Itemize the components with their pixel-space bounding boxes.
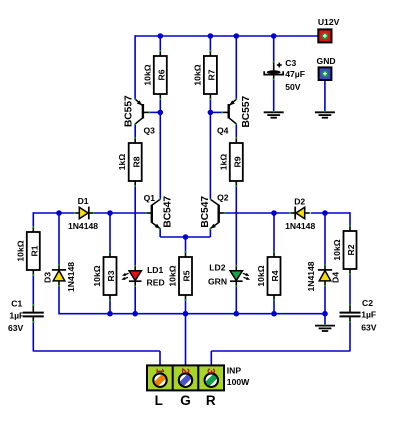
- label LD1: [147, 265, 163, 275]
- svg-text:L: L: [155, 393, 163, 408]
- wire C3 bottom to ground: [273, 78, 275, 112]
- svg-text:1N4148: 1N4148: [68, 221, 98, 231]
- label U12V: [318, 17, 340, 27]
- svg-text:LD1: LD1: [147, 265, 163, 275]
- resistor R4 10k: [256, 252, 281, 300]
- pin number 1: [153, 368, 165, 374]
- wire Q4 emitter to rail: [235, 36, 237, 99]
- svg-text:D3: D3: [43, 272, 53, 283]
- wire R3 bottom lead: [109, 300, 111, 314]
- junction dot Q3 base node: [158, 110, 164, 116]
- svg-text:RED: RED: [147, 278, 165, 288]
- svg-text:D1: D1: [78, 196, 89, 206]
- diode D3 1N4148: [52, 265, 66, 286]
- svg-text:1: 1: [153, 368, 165, 374]
- label BC547 Q2: [200, 196, 211, 228]
- label RED: [147, 278, 165, 288]
- LED LD1 red: [121, 266, 141, 287]
- wire mid ground bus: [59, 313, 325, 315]
- svg-text:50V: 50V: [285, 82, 301, 92]
- svg-text:1N4148: 1N4148: [306, 261, 316, 291]
- svg-text:R8: R8: [131, 156, 141, 167]
- label GND: [317, 56, 336, 66]
- svg-text:R3: R3: [106, 270, 116, 281]
- resistor R9 1k: [218, 138, 243, 186]
- label Q2: [217, 193, 229, 203]
- svg-text:1µF: 1µF: [9, 310, 24, 320]
- label BC547 Q1: [162, 196, 173, 228]
- wire Q4 collector to R9: [235, 124, 237, 139]
- svg-text:R2: R2: [346, 244, 356, 255]
- wire R2 bottom to C2: [349, 274, 351, 306]
- transistor Q4 BC557: [222, 99, 236, 124]
- wire node Q3/R6/Q1-collector vertical: [159, 112, 161, 199]
- svg-text:1kΩ: 1kΩ: [117, 154, 127, 171]
- wire emitter bracket: [160, 236, 210, 238]
- label C1: [11, 298, 22, 308]
- wire base line right (Q2 to R2): [225, 212, 351, 226]
- label C2: [362, 298, 373, 308]
- wire LD1 bottom lead: [134, 286, 136, 314]
- label C3 value: [285, 69, 305, 79]
- wire Q1 emitter down: [159, 229, 161, 237]
- svg-text:10kΩ: 10kΩ: [15, 240, 25, 261]
- wire Q3 collector to R8: [134, 124, 136, 139]
- wire R6 bottom to Q3 base junction: [159, 99, 161, 113]
- label 1N4148 D1: [68, 221, 98, 231]
- svg-text:R9: R9: [232, 156, 242, 167]
- svg-text:C2: C2: [362, 298, 373, 308]
- wire R1 top lead: [32, 212, 34, 227]
- svg-text:C3: C3: [285, 58, 296, 68]
- junction dots base line right: [271, 210, 328, 216]
- diode D2 1N4148: [290, 207, 309, 220]
- label Q1: [144, 193, 156, 203]
- svg-text:3: 3: [205, 368, 217, 374]
- svg-text:LD2: LD2: [209, 262, 225, 272]
- svg-text:Q1: Q1: [144, 193, 156, 203]
- wire R7 bottom to Q4 base junction: [209, 99, 211, 113]
- capacitor C3 47uF polarized: [264, 62, 283, 80]
- resistor R3 10k: [92, 252, 117, 300]
- wire C1 to terminal L: [33, 322, 160, 371]
- label BC557 Q3: [123, 95, 134, 127]
- svg-text:1N4148: 1N4148: [285, 221, 315, 231]
- svg-text:BC557: BC557: [241, 96, 252, 128]
- label C2 value: [361, 309, 376, 319]
- terminal screw 1: [152, 372, 169, 389]
- svg-text:R: R: [206, 393, 216, 408]
- svg-text:10kΩ: 10kΩ: [192, 64, 202, 85]
- svg-text:R4: R4: [270, 270, 280, 281]
- label BC557 Q4: [241, 96, 252, 128]
- svg-text:47µF: 47µF: [285, 69, 305, 79]
- svg-text:GRN: GRN: [208, 277, 227, 287]
- wire R4 top lead: [273, 213, 275, 253]
- wire LD2 bottom lead: [235, 286, 237, 314]
- svg-text:C1: C1: [11, 298, 22, 308]
- resistor R5 10k: [168, 252, 193, 300]
- svg-text:10kΩ: 10kΩ: [168, 265, 178, 286]
- wire D4 top lead: [324, 213, 326, 265]
- svg-text:D4: D4: [330, 272, 340, 283]
- transistor Q1 BC547: [146, 199, 160, 228]
- label D3: [43, 272, 53, 283]
- svg-text:INP: INP: [227, 366, 242, 376]
- label D4: [330, 272, 340, 283]
- junction dots top rail: [158, 33, 277, 39]
- resistor R6 10k: [142, 51, 167, 99]
- svg-text:Q3: Q3: [143, 125, 155, 135]
- wire D3 bottom to bus: [58, 286, 60, 315]
- wire C3 top lead: [273, 36, 275, 64]
- svg-text:63V: 63V: [361, 323, 377, 333]
- transistor Q2 BC547: [210, 199, 224, 228]
- label L: [155, 393, 163, 408]
- wire R8 to LD1 (crosses base line): [134, 186, 136, 267]
- svg-text:63V: 63V: [8, 323, 24, 333]
- label C2 voltage: [361, 323, 377, 333]
- transistor Q3 BC557: [135, 99, 149, 124]
- wire R9 to LD2 (crosses base line): [235, 186, 237, 267]
- svg-text:Q2: Q2: [217, 193, 229, 203]
- label GRN: [208, 277, 227, 287]
- wire bus end to ground: [324, 314, 326, 325]
- terminal block INP: [147, 365, 224, 390]
- wire R4 bottom lead: [273, 300, 275, 314]
- svg-text:D2: D2: [294, 197, 305, 207]
- junction dots ground bus: [107, 311, 328, 317]
- wire base line left (R1 to Q1): [33, 212, 146, 214]
- wire bus to terminal G: [185, 314, 187, 371]
- diode D4 1N4148: [318, 265, 332, 286]
- label 100W: [227, 377, 250, 387]
- svg-text:GND: GND: [317, 56, 336, 66]
- resistor R7 10k: [192, 51, 217, 99]
- wire Q3 base to junction: [149, 111, 161, 113]
- resistor R8 1k: [117, 138, 142, 186]
- label Q4: [217, 125, 229, 135]
- wire top +12V rail: [135, 35, 318, 37]
- svg-text:G: G: [180, 393, 191, 408]
- power connector U12V: [318, 29, 331, 42]
- junction dot Q4 base node: [208, 110, 214, 116]
- wire R3 top lead: [109, 213, 111, 253]
- diode D1 1N4148: [74, 207, 93, 220]
- wire R1 bottom to C1: [32, 275, 34, 306]
- svg-text:R5: R5: [182, 270, 192, 281]
- svg-text:10kΩ: 10kΩ: [332, 239, 342, 260]
- svg-text:100W: 100W: [227, 377, 250, 387]
- svg-text:10kΩ: 10kΩ: [256, 265, 266, 286]
- label R: [206, 393, 216, 408]
- ground under C3: [264, 112, 284, 117]
- wire R7 top lead: [209, 36, 211, 52]
- ground at bus right end: [315, 326, 335, 331]
- label D1: [78, 196, 89, 206]
- capacitor C2 1uF: [340, 305, 361, 323]
- label 1N4148 D4: [306, 261, 316, 291]
- svg-text:2: 2: [179, 368, 191, 374]
- wire R5 bottom lead: [185, 300, 187, 314]
- wire node Q4/R7/Q2-collector vertical: [209, 112, 211, 199]
- svg-text:1kΩ: 1kΩ: [218, 154, 228, 171]
- wire Q2 emitter down: [209, 229, 211, 237]
- svg-text:BC547: BC547: [200, 196, 211, 228]
- wire Q4 base to junction: [210, 111, 222, 113]
- svg-text:BC547: BC547: [162, 196, 173, 228]
- wire GND connector to ground: [324, 80, 326, 112]
- junction dots base line left: [56, 210, 113, 216]
- label G: [180, 393, 191, 408]
- svg-text:R1: R1: [29, 245, 39, 256]
- label C3: [285, 58, 296, 68]
- wire C2 to terminal R: [211, 322, 350, 371]
- terminal screw 3: [203, 372, 220, 389]
- svg-text:R7: R7: [207, 69, 217, 80]
- label D2: [294, 197, 305, 207]
- wire D3 top lead: [58, 213, 60, 265]
- resistor R2 10k: [332, 226, 357, 274]
- label C1 voltage: [8, 323, 24, 333]
- ground under GND connector: [315, 112, 335, 117]
- gnd connector GND: [319, 67, 332, 80]
- svg-text:Q4: Q4: [217, 125, 229, 135]
- svg-text:BC557: BC557: [123, 95, 134, 127]
- pin number 2: [179, 368, 191, 374]
- label Q3: [143, 125, 155, 135]
- label C1 value: [9, 310, 24, 320]
- label C3 voltage: [285, 82, 301, 92]
- terminal screw 2: [177, 372, 194, 389]
- label 1N4148 D3: [66, 262, 76, 292]
- wire D4 bottom to bus: [324, 286, 326, 314]
- LED LD2 green: [230, 266, 250, 287]
- wire Q3 emitter to rail: [134, 35, 136, 99]
- svg-text:R6: R6: [156, 69, 166, 80]
- label INP: [227, 366, 242, 376]
- svg-text:1µF: 1µF: [361, 309, 376, 319]
- svg-text:10kΩ: 10kΩ: [92, 265, 102, 286]
- label LD2: [209, 262, 225, 272]
- junction dot emitter node: [183, 234, 189, 240]
- wire R6 top lead: [159, 36, 161, 52]
- svg-text:10kΩ: 10kΩ: [142, 64, 152, 85]
- resistor R1 10k: [15, 227, 40, 275]
- svg-text:1N4148: 1N4148: [66, 262, 76, 292]
- svg-text:U12V: U12V: [318, 17, 340, 27]
- capacitor C1 1uF: [23, 305, 44, 323]
- pin connection markers: [32, 50, 350, 367]
- pin number 3: [205, 368, 217, 374]
- label 1N4148 D2: [285, 221, 315, 231]
- wire emitter junction to R5: [185, 237, 187, 253]
